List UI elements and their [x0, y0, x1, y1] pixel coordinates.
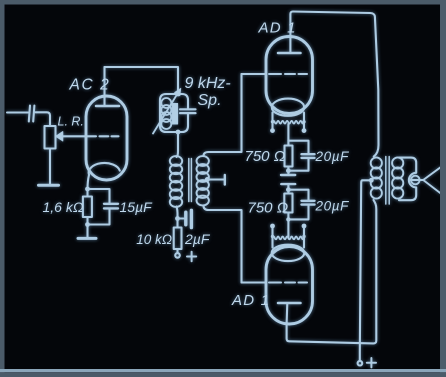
wire input cap to potentiometer	[36, 112, 51, 126]
tube AD1 lower anode	[278, 303, 301, 324]
ground pot ground	[39, 184, 59, 187]
wire filament center tap lower	[287, 219, 289, 237]
node bias terminal bar	[224, 175, 226, 185]
inductor T1 secondary	[197, 156, 209, 205]
capacitor C-in input coupling	[29, 106, 35, 122]
inductor L1 trap coil	[161, 98, 171, 129]
resistor R4 750 lower	[284, 190, 292, 220]
svg-text:AC 2: AC 2	[69, 77, 111, 94]
filament lower AD1	[273, 237, 305, 240]
wire AD1 upper anode to output transformer	[290, 11, 378, 156]
speaker voice coil	[411, 176, 420, 185]
inductor trap slug core	[172, 104, 177, 125]
svg-text:20µF: 20µF	[315, 199, 350, 214]
capacitor trap cap plates	[180, 109, 196, 113]
svg-text:L. R.: L. R.	[58, 115, 84, 129]
wire potentiometer to ground	[49, 149, 51, 185]
wire T2 secondary loop	[399, 158, 416, 201]
node coupling junction	[175, 216, 180, 221]
node filament terminal left lower	[270, 224, 275, 229]
wire primary bottom lead	[177, 207, 178, 219]
node trap bottom junction	[176, 130, 181, 135]
svg-text:15µF: 15µF	[120, 199, 154, 215]
node lower RC junction	[286, 187, 291, 192]
tube AD1 lower grid dashes	[269, 281, 307, 283]
node wiper arrowhead	[56, 132, 63, 141]
wire to cathode ground	[86, 225, 88, 238]
resistor R2 10k	[174, 219, 182, 253]
wire lower RC branch	[288, 190, 308, 200]
potentiometer L.R.	[45, 126, 56, 149]
core T2 laminations	[386, 157, 389, 205]
node mid plate upper	[281, 171, 295, 175]
node filament terminal left upper	[270, 128, 275, 133]
speaker cone	[423, 167, 440, 193]
node filament wave ends lower	[271, 235, 306, 238]
tube AD1 lower envelope	[266, 247, 313, 325]
tube AD1 upper anode	[278, 37, 301, 54]
node filament terminal right upper	[302, 128, 307, 133]
wire secondary top to AD1 grid	[204, 74, 242, 156]
inductor T1 primary	[170, 156, 182, 207]
wire trap loop	[160, 94, 188, 132]
wire filament posts upper	[273, 113, 305, 129]
tube AD1 lower filament dome	[272, 245, 305, 261]
wire filament center tap upper	[288, 124, 308, 153]
resistor R3 750 upper	[285, 141, 293, 171]
capacitor C5 20uF lower	[288, 201, 314, 220]
wire cathode to 15uF	[88, 189, 110, 203]
svg-text:9 kHz-: 9 kHz-	[185, 75, 231, 92]
node lower RC bottom junction	[286, 217, 290, 221]
svg-text:2µF: 2µF	[184, 231, 211, 247]
wire AD1 lower grid lead	[242, 281, 267, 283]
node T1 center tap	[205, 177, 210, 182]
frame top border	[0, 0, 446, 5]
filament upper AD1	[273, 121, 305, 124]
tube AD1 upper grid dashes	[269, 73, 307, 75]
ground cathode ground	[78, 237, 96, 240]
tube AC2 envelope	[86, 96, 127, 180]
tube AD1 upper filament dome	[272, 99, 304, 116]
node filament wave ends upper	[271, 120, 306, 123]
tube AC2 anode plate	[96, 67, 119, 106]
svg-text:Sp.: Sp.	[198, 92, 222, 109]
node plus sign right	[367, 358, 376, 367]
frame left border	[0, 0, 5, 377]
frame bottom light line	[0, 369, 446, 372]
wire speaker lead	[410, 179, 423, 181]
node B plus terminal	[175, 253, 180, 258]
wire trap to transformer primary	[177, 132, 179, 157]
tube AC2 cathode dome	[89, 163, 120, 175]
wire AC2 anode to trap	[105, 67, 179, 92]
node cathode junction	[85, 187, 90, 192]
svg-text:AD 1: AD 1	[231, 292, 270, 309]
node cathode bottom junction	[85, 222, 90, 227]
capacitor C4 20uF upper	[288, 154, 314, 171]
wire center tap lead	[207, 178, 223, 180]
svg-text:1,6 kΩ: 1,6 kΩ	[43, 199, 84, 215]
inductor T2 secondary	[392, 157, 403, 198]
wire input lead	[7, 111, 28, 113]
wire 15uF bottom to resistor bottom	[88, 210, 110, 225]
node trap top junction	[176, 92, 181, 97]
svg-text:20µF: 20µF	[315, 149, 350, 164]
node filament terminal right lower	[302, 224, 307, 229]
capacitor C3 coupling	[178, 210, 192, 227]
svg-text:AD 1: AD 1	[258, 20, 297, 37]
tube AD1 upper envelope	[266, 37, 313, 114]
wire trap tuning arrow	[153, 92, 179, 134]
node trap arrowhead	[175, 88, 181, 96]
svg-text:750 Ω: 750 Ω	[245, 148, 286, 165]
wire secondary bottom to lower AD1	[204, 206, 242, 283]
node upper RC junction	[286, 168, 291, 173]
node mid plate lower	[281, 184, 295, 190]
capacitor C2 15uF	[104, 204, 118, 209]
frame bottom border	[0, 372, 446, 377]
wire T2 center tap to B plus	[360, 180, 372, 361]
frame right border	[440, 0, 446, 377]
node plus sign	[187, 252, 196, 261]
node T2 center tap	[369, 178, 374, 183]
wire wiper arrow to AC2 grid	[62, 135, 96, 137]
node B plus terminal right	[358, 361, 363, 366]
resistor R1 1.6k	[83, 189, 92, 225]
tube AC2 grid dashes	[100, 135, 119, 137]
core T1 laminations	[189, 159, 192, 202]
svg-text:750 Ω: 750 Ω	[248, 200, 289, 217]
wire AD1 lower anode to output transformer	[287, 200, 377, 343]
inductor T2 primary	[371, 157, 382, 198]
wire AC2 cathode lead	[88, 175, 90, 189]
wire AD1 upper grid lead	[242, 73, 267, 75]
wire filament posts lower	[273, 228, 305, 248]
svg-text:10 kΩ: 10 kΩ	[136, 232, 172, 247]
